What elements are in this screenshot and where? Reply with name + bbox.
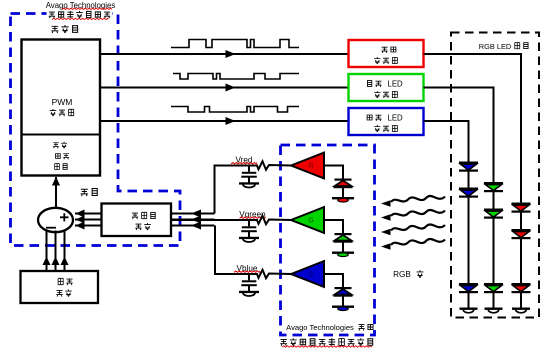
label Avago Technologies (An bbox=[286, 323, 373, 332]
LED green D2 bbox=[484, 209, 503, 219]
LED red D2 bbox=[512, 229, 531, 239]
svg-text:Avago Technologies: Avago Technologies bbox=[286, 323, 354, 332]
capacitor C blue with ground bbox=[239, 274, 259, 296]
photodiode green with ground bbox=[324, 220, 354, 257]
ground blue column bbox=[460, 308, 478, 313]
RGB LED array dashed box bbox=[451, 33, 539, 318]
ground green column bbox=[485, 308, 503, 313]
wire error summer to PWM box bbox=[52, 177, 60, 209]
label (An Hua Gao Ke Ji) parenthetical bbox=[47, 10, 113, 20]
LED blue D3 bbox=[459, 283, 478, 293]
LED blue D2 bbox=[459, 188, 478, 198]
svg-text:B: B bbox=[309, 271, 314, 278]
wire target color to summer x=46.5 bbox=[43, 231, 51, 272]
wire measured box to summer y=225.5 bbox=[75, 222, 102, 230]
label red (hong se) bbox=[381, 47, 395, 53]
LED red D1 bbox=[512, 203, 531, 213]
wire squiggle break blue bbox=[253, 270, 291, 278]
node Vblue output wire bbox=[215, 226, 253, 275]
svg-text:R: R bbox=[308, 163, 313, 170]
RGB light wave 1 bbox=[381, 196, 445, 207]
LED blue D1 bbox=[459, 162, 478, 172]
label driver (qu dong qi) g bbox=[374, 91, 397, 98]
svg-text:LED: LED bbox=[388, 114, 404, 123]
label RGB light (RGB guang) bbox=[393, 270, 423, 279]
svg-text:PWM: PWM bbox=[52, 97, 73, 107]
label measured (ce de de) bbox=[132, 212, 155, 219]
PWM waveform blue channel bbox=[171, 107, 299, 113]
label color (se cai) measured bbox=[135, 223, 150, 230]
summing junction circle bbox=[38, 208, 73, 232]
label driver (qu dong qi) r bbox=[374, 57, 397, 64]
PWM waveform red channel bbox=[171, 40, 299, 48]
wire into measured box y=213.5 bbox=[171, 210, 215, 218]
wire target color to summer x=55.5 bbox=[52, 231, 60, 272]
wire blue LED column bbox=[468, 162, 470, 308]
green LED driver box bbox=[349, 74, 424, 101]
label Avago Technologies (controller title) bbox=[46, 1, 116, 10]
label RGB LED array (RGB LED zhen lie) bbox=[479, 42, 528, 51]
photodiode blue with ground bbox=[324, 274, 354, 311]
wire red LED column bbox=[520, 203, 522, 308]
controller dashed box (Avago controller) bbox=[11, 14, 181, 246]
label color (se cai) bbox=[53, 142, 67, 149]
wire measured box to summer y=213.5 bbox=[75, 210, 102, 218]
label green LED (lv se LED) bbox=[367, 80, 403, 89]
wire into measured box y=225.5 bbox=[171, 222, 215, 230]
wire into measured box y=219.5 bbox=[171, 216, 215, 224]
RGB light wave 2 bbox=[381, 210, 445, 221]
photodiode red with ground bbox=[324, 166, 354, 203]
measured color box bbox=[102, 204, 172, 237]
label logic (luo ji) bbox=[55, 164, 67, 170]
label target (mu biao) bbox=[58, 278, 73, 285]
op-amp red channel bbox=[291, 153, 324, 179]
label Vgreen bbox=[239, 210, 266, 219]
wire blue driver to blue LED string bbox=[424, 121, 469, 162]
label PWM bbox=[52, 97, 73, 107]
label color (se cai) target bbox=[56, 289, 71, 296]
LED green D3 bbox=[484, 283, 503, 293]
label blue LED (lan se LED) bbox=[367, 114, 403, 123]
label driver (qu dong qi) b bbox=[374, 125, 397, 132]
node Vgreen output wire bbox=[171, 219, 253, 221]
ground red column bbox=[512, 308, 530, 313]
svg-text:RGB LED: RGB LED bbox=[479, 42, 511, 51]
target color box bbox=[21, 271, 99, 303]
LED red D3 bbox=[512, 283, 531, 293]
wire target color to summer x=64.5 bbox=[61, 231, 69, 272]
label Vred bbox=[231, 155, 257, 164]
svg-text:LED: LED bbox=[388, 80, 404, 89]
RGB light wave 3 bbox=[381, 224, 445, 235]
wire PWM to green driver bbox=[100, 84, 348, 92]
label generator (fa sheng qi) bbox=[50, 109, 74, 116]
label hua gao ke ji color sensor bbox=[280, 338, 372, 347]
red driver box bbox=[349, 40, 424, 67]
PWM generator / color logic box U1 bbox=[22, 40, 101, 176]
svg-text:RGB: RGB bbox=[393, 270, 411, 279]
op-amp green channel bbox=[291, 207, 324, 233]
label processing (chu li) bbox=[56, 154, 70, 160]
LED green D1 bbox=[484, 182, 503, 192]
wire squiggle break red bbox=[253, 161, 291, 169]
capacitor C green with ground bbox=[239, 220, 259, 242]
label Vblue bbox=[234, 264, 260, 273]
op-amp blue channel bbox=[291, 261, 324, 287]
wire green driver to green LED string bbox=[424, 88, 494, 183]
node Vred output wire bbox=[215, 166, 254, 214]
capacitor C red with ground bbox=[239, 166, 259, 188]
RGB light wave 4 bbox=[381, 239, 445, 250]
svg-text:G: G bbox=[308, 217, 313, 224]
wire red driver to red LED string bbox=[424, 54, 522, 203]
blue LED driver box bbox=[349, 108, 424, 135]
color sensor dashed box bbox=[281, 145, 375, 335]
label error (cuo wu) bbox=[81, 189, 98, 197]
wire green LED column bbox=[493, 182, 495, 308]
PWM waveform green channel bbox=[173, 74, 299, 80]
wire squiggle break green bbox=[253, 216, 291, 224]
wire measured box to summer y=219.5 bbox=[75, 216, 102, 224]
label controller (kong zhi qi) bbox=[51, 25, 77, 33]
wire PWM to blue driver bbox=[100, 117, 348, 125]
wire PWM to red driver bbox=[100, 50, 348, 58]
